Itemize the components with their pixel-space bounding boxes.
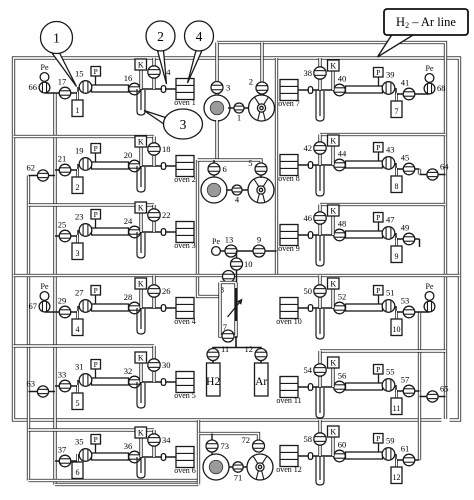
- svg-text:oven 10: oven 10: [276, 317, 302, 326]
- cold trap row2: [137, 166, 145, 192]
- svg-text:P: P: [376, 143, 380, 152]
- wire Ar cylinder stem: [260, 360, 262, 364]
- callout circle 2: [146, 21, 175, 51]
- wire middle header: [198, 160, 262, 164]
- wire valve 14 drop: [152, 58, 155, 89]
- cold trap row12: [316, 456, 324, 485]
- metering valve 59: [382, 448, 395, 461]
- svg-text:68: 68: [437, 83, 446, 93]
- valve 34: [148, 434, 160, 446]
- wire row4 main seg: [129, 307, 176, 309]
- svg-text:57: 57: [401, 375, 410, 385]
- svg-text:oven 7: oven 7: [278, 99, 300, 108]
- svg-text:oven 11: oven 11: [276, 396, 301, 405]
- wire manifold riser: [236, 251, 238, 284]
- sample tube 4: [72, 311, 83, 336]
- diffusion pump 1: [204, 95, 230, 121]
- valve 41: [403, 88, 415, 100]
- K gauge row3: [135, 202, 147, 213]
- svg-text:3: 3: [180, 117, 187, 132]
- wire manifold top line: [216, 250, 277, 252]
- Ar cylinder: [255, 363, 269, 396]
- wire valve5 stem: [260, 164, 262, 178]
- svg-text:15: 15: [75, 69, 84, 79]
- metering valve 55: [382, 379, 395, 392]
- valve 56: [334, 381, 346, 393]
- svg-text:P: P: [94, 360, 98, 369]
- K gauge row8: [328, 135, 340, 146]
- valve 65: [427, 391, 438, 402]
- wire row7 Pe stem: [429, 78, 431, 94]
- svg-text:53: 53: [401, 296, 410, 306]
- K gauge stub row2: [139, 147, 142, 166]
- wire valve 38 drop: [318, 58, 321, 90]
- wire valve 46 drop: [318, 205, 321, 236]
- valve 9: [253, 245, 265, 257]
- valve 42: [314, 142, 326, 154]
- svg-text:54: 54: [304, 365, 313, 375]
- valve 30: [148, 359, 160, 371]
- metering valve 31: [79, 374, 92, 387]
- fitting row6: [161, 454, 165, 461]
- svg-text:9: 9: [395, 252, 399, 261]
- svg-text:9: 9: [257, 235, 261, 245]
- valve 63: [37, 386, 48, 397]
- wire row6 main seg: [129, 456, 176, 458]
- valve 71: [233, 462, 243, 472]
- gauge P row3: [95, 219, 97, 228]
- wire row9 lower seg: [396, 233, 420, 239]
- sample tube 3: [72, 235, 83, 260]
- reactor tube row5: [92, 378, 129, 385]
- sample tube 9: [391, 238, 402, 263]
- svg-text:oven 12: oven 12: [276, 465, 302, 474]
- wire row1 Pe stem: [44, 77, 46, 93]
- valve 38: [314, 67, 326, 79]
- gauge P row11: [378, 374, 380, 383]
- wire valve 22 drop: [152, 205, 155, 232]
- svg-text:10: 10: [393, 325, 401, 334]
- svg-text:oven 2: oven 2: [174, 175, 196, 184]
- H2-Ar line pointer: [378, 35, 415, 58]
- svg-text:40: 40: [338, 74, 347, 84]
- wire diff-pump1 inlet riser: [215, 43, 218, 96]
- svg-text:24: 24: [124, 216, 133, 226]
- reactor tube row6: [92, 453, 129, 460]
- fitting row10: [308, 305, 312, 312]
- svg-text:3: 3: [76, 249, 80, 258]
- H2 cylinder: [207, 363, 221, 396]
- K gauge stub row7: [331, 71, 334, 90]
- svg-text:K: K: [330, 206, 336, 215]
- wire row6 lower seg: [55, 455, 78, 461]
- wire bus-B roughing line top: [217, 43, 446, 420]
- reactor tube row1: [92, 85, 129, 92]
- wire bottom header: [199, 434, 259, 453]
- wire row7 lower seg: [396, 88, 430, 94]
- wire diff-pump1 backing: [215, 120, 218, 160]
- K gauge stub row12: [331, 437, 334, 456]
- K gauge stub row3: [139, 213, 142, 232]
- oven 9: [278, 225, 300, 254]
- valve 57: [403, 385, 415, 397]
- svg-text:P: P: [94, 286, 98, 295]
- svg-text:Pe: Pe: [41, 282, 49, 291]
- svg-text:4: 4: [235, 195, 240, 205]
- svg-text:37: 37: [58, 445, 67, 455]
- reactor tube row7: [346, 86, 383, 93]
- svg-text:4: 4: [196, 29, 203, 44]
- reactor tube row10: [346, 304, 383, 311]
- svg-text:71: 71: [234, 473, 243, 483]
- valve 72: [253, 440, 265, 452]
- valve 1: [234, 103, 244, 113]
- valve 18: [148, 143, 160, 155]
- svg-text:Pe: Pe: [41, 63, 49, 72]
- cold trap row8: [316, 165, 324, 196]
- oven 7: [278, 80, 300, 109]
- K gauge row9: [328, 205, 340, 216]
- fitting row11: [308, 384, 312, 391]
- svg-text:10: 10: [244, 259, 253, 269]
- svg-text:K: K: [330, 358, 336, 367]
- K gauge row1: [135, 59, 147, 70]
- valve 66: [39, 82, 50, 93]
- oven 3: [174, 222, 196, 251]
- wire bottom-left bus y480: [29, 479, 199, 482]
- svg-text:25: 25: [58, 220, 67, 230]
- svg-text:21: 21: [58, 154, 67, 164]
- valve 73: [206, 440, 218, 452]
- oven 4: [174, 298, 196, 327]
- wire valve 30 drop: [152, 346, 155, 382]
- wire row2 main seg: [129, 165, 176, 167]
- callout circle 3: [164, 109, 203, 139]
- svg-text:12: 12: [393, 473, 401, 482]
- sample tube 2: [72, 169, 83, 194]
- wire loop to manifold: [213, 336, 261, 354]
- sample tube 10: [391, 311, 402, 336]
- svg-text:66: 66: [29, 82, 38, 92]
- wire row5 lower seg: [55, 380, 78, 386]
- svg-text:P: P: [94, 210, 98, 219]
- valve 48: [334, 229, 346, 241]
- svg-text:30: 30: [162, 360, 171, 370]
- svg-text:2: 2: [157, 29, 164, 44]
- svg-text:45: 45: [401, 153, 410, 163]
- svg-text:36: 36: [124, 441, 133, 451]
- svg-text:oven 8: oven 8: [278, 174, 300, 183]
- svg-text:61: 61: [401, 444, 410, 454]
- wire left center bus x197: [198, 160, 222, 297]
- pressure gauge Pe row10: [425, 282, 434, 300]
- valve 40: [334, 84, 346, 96]
- svg-text:65: 65: [440, 384, 449, 394]
- svg-text:13: 13: [225, 235, 234, 245]
- wire row5 frame: [14, 344, 155, 347]
- callout pointer 1: [52, 53, 77, 87]
- wire row10 lower seg: [396, 306, 430, 312]
- wire row4 lower seg: [45, 306, 79, 312]
- sample tube 6: [72, 454, 83, 479]
- svg-text:K: K: [138, 137, 144, 146]
- metering valve 35: [79, 449, 92, 462]
- wire row8 lower seg: [396, 163, 420, 169]
- wire row11 main seg: [298, 386, 345, 388]
- svg-text:oven 6: oven 6: [174, 466, 196, 475]
- svg-text:35: 35: [75, 437, 84, 447]
- wire row8 stub: [420, 174, 446, 176]
- svg-text:P: P: [376, 286, 380, 295]
- wire row9 end hook: [419, 239, 421, 247]
- svg-text:K: K: [330, 279, 336, 288]
- svg-text:19: 19: [75, 146, 84, 156]
- svg-text:2: 2: [76, 183, 80, 192]
- wire right bus x419 lower: [418, 312, 421, 460]
- metering valve 43: [382, 157, 395, 170]
- metering valve 47: [382, 227, 395, 240]
- wire valve6 stem: [213, 160, 215, 178]
- fitting row3: [161, 229, 165, 236]
- svg-text:7: 7: [395, 107, 399, 116]
- gauge P row8: [378, 152, 380, 161]
- wire pump3 link: [229, 466, 248, 468]
- oven 10: [276, 298, 302, 327]
- gauge P row6: [95, 444, 97, 453]
- svg-text:K: K: [138, 60, 144, 69]
- diffusion pump 3: [203, 454, 229, 480]
- wire row12 lower seg: [396, 454, 420, 460]
- valve 6: [208, 163, 220, 175]
- wire valve8 stem: [228, 276, 230, 285]
- fitting row2: [161, 163, 165, 170]
- K gauge row2: [135, 136, 147, 147]
- wire row3 frame: [29, 203, 155, 206]
- flow restrictor bar: [235, 288, 238, 321]
- valve 7: [222, 330, 234, 342]
- svg-text:50: 50: [304, 286, 313, 296]
- fitting row8: [308, 162, 312, 169]
- K gauge row5: [135, 352, 147, 363]
- wire bottom frame left: [197, 434, 200, 485]
- wire row10 main seg: [298, 307, 345, 309]
- gauge P row12: [378, 443, 380, 452]
- wire row9 main seg: [298, 234, 345, 236]
- svg-text:56: 56: [338, 371, 347, 381]
- valve 29: [59, 306, 71, 318]
- svg-text:31: 31: [75, 362, 84, 372]
- svg-text:P: P: [94, 144, 98, 153]
- svg-text:16: 16: [124, 73, 133, 83]
- K gauge stub row11: [331, 368, 334, 387]
- metering valve 23: [79, 224, 92, 237]
- wire bus-A main H2-Ar ring: [14, 58, 460, 420]
- svg-text:51: 51: [386, 288, 395, 298]
- sample tube 12: [391, 459, 402, 484]
- gauge P row5: [95, 369, 97, 378]
- oven 5: [174, 372, 196, 401]
- reactor tube row12: [346, 452, 383, 459]
- svg-text:43: 43: [386, 145, 395, 155]
- K gauge stub row1: [139, 70, 142, 89]
- fitting row9: [308, 232, 312, 239]
- svg-text:60: 60: [338, 440, 347, 450]
- svg-text:67: 67: [29, 301, 38, 311]
- wire crossing hop at bus-A bottom x445: [442, 417, 450, 424]
- oven 6: [174, 447, 196, 476]
- wire row4 Pe stem: [44, 296, 46, 312]
- cold trap row5: [137, 382, 145, 408]
- cold trap row1: [137, 89, 145, 115]
- oven 1: [174, 79, 196, 108]
- oven 2: [174, 156, 196, 185]
- svg-text:8: 8: [395, 182, 399, 191]
- valve 36: [129, 451, 141, 463]
- wire row6 frame: [29, 428, 155, 431]
- callout pointer 4: [188, 51, 203, 84]
- svg-text:26: 26: [162, 286, 171, 296]
- svg-text:22: 22: [162, 210, 171, 220]
- svg-text:27: 27: [75, 288, 84, 298]
- svg-text:34: 34: [162, 435, 171, 445]
- valve 24: [129, 226, 141, 238]
- svg-text:3: 3: [226, 83, 230, 93]
- callout circle 1: [41, 22, 73, 54]
- wire left bus x55: [53, 93, 56, 485]
- svg-text:33: 33: [58, 370, 67, 380]
- svg-text:44: 44: [338, 149, 347, 159]
- valve 22: [148, 209, 160, 221]
- metering valve 27: [79, 300, 92, 313]
- svg-text:1: 1: [237, 113, 241, 123]
- reactor tube row11: [346, 383, 383, 390]
- svg-text:Ar: Ar: [255, 376, 267, 388]
- sample tube 8: [391, 168, 402, 193]
- cold trap row11: [316, 387, 324, 418]
- valve 52: [334, 302, 346, 314]
- K gauge row6: [135, 427, 147, 438]
- valve 4: [232, 185, 242, 195]
- svg-text:17: 17: [58, 77, 67, 87]
- wire right center bus x276: [275, 58, 278, 276]
- K gauge row10: [328, 278, 340, 289]
- fitting row5: [161, 379, 165, 386]
- svg-text:64: 64: [440, 162, 449, 172]
- svg-text:K: K: [330, 61, 336, 70]
- sample tube 11: [391, 390, 402, 415]
- svg-text:P: P: [376, 213, 380, 222]
- svg-text:K: K: [138, 279, 144, 288]
- svg-text:Pe: Pe: [426, 282, 434, 291]
- valve 60: [334, 450, 346, 462]
- valve 33: [59, 380, 71, 392]
- svg-text:K: K: [138, 203, 144, 212]
- valve 21: [59, 164, 71, 176]
- gauge P row10: [378, 295, 380, 304]
- wire valve 54 drop: [318, 351, 321, 387]
- svg-text:K: K: [330, 136, 336, 145]
- svg-text:K: K: [138, 353, 144, 362]
- gauge P row4: [95, 295, 97, 304]
- valve row10 edge: [424, 301, 435, 312]
- wire row9 frame: [320, 203, 446, 206]
- svg-text:28: 28: [124, 292, 133, 302]
- wire row5 main seg: [129, 381, 176, 383]
- pressure gauge Pe row7: [425, 64, 434, 82]
- svg-text:62: 62: [27, 163, 36, 173]
- wire bottom pump feed: [197, 420, 200, 434]
- valve 32: [129, 376, 141, 388]
- svg-text:49: 49: [401, 223, 410, 233]
- svg-text:P: P: [376, 365, 380, 374]
- wire row11 stub: [420, 396, 446, 398]
- svg-text:42: 42: [304, 143, 313, 153]
- reactor tube row2: [92, 162, 129, 169]
- cold trap row9: [316, 235, 324, 266]
- callout circle 4: [185, 21, 214, 51]
- metering valve 15: [79, 81, 92, 94]
- valve 20: [129, 160, 141, 172]
- wire left bus x28: [27, 176, 30, 481]
- fitting row4: [161, 305, 165, 312]
- svg-text:2: 2: [249, 77, 253, 87]
- wire valve 34 drop: [152, 430, 155, 457]
- valve 10: [231, 258, 243, 270]
- wire bottom-left bus y484: [55, 483, 199, 486]
- pressure gauge Pe row4: [40, 282, 49, 300]
- valve 8: [223, 271, 235, 283]
- wire pump1 link: [228, 107, 250, 109]
- wire row2 stub: [29, 175, 56, 177]
- svg-text:12: 12: [245, 344, 254, 354]
- pressure gauge Pe manifold: [212, 237, 221, 255]
- reactor tube row9: [346, 231, 383, 238]
- sample tube 7: [391, 93, 402, 118]
- diffusion pump 2: [201, 177, 227, 203]
- valve 49: [403, 233, 415, 245]
- svg-text:41: 41: [401, 78, 410, 88]
- gauge P row9: [378, 222, 380, 231]
- wire valve73 stem: [211, 434, 213, 456]
- cold trap row7: [316, 90, 324, 121]
- sample tube 5: [72, 385, 83, 410]
- svg-text:48: 48: [338, 219, 347, 229]
- K gauge stub row5: [139, 363, 142, 382]
- valve 3: [211, 82, 223, 94]
- wire right bus x419 upper (row8 corner): [418, 169, 421, 175]
- sample tube 1: [72, 92, 83, 117]
- svg-text:1: 1: [76, 106, 80, 115]
- valve 44: [334, 159, 346, 171]
- wire row1 main seg: [129, 88, 176, 90]
- valve 68: [424, 83, 435, 94]
- svg-text:Pe: Pe: [426, 64, 434, 73]
- svg-text:6: 6: [223, 164, 227, 174]
- callout pointer 2: [158, 51, 167, 85]
- reactor tube row8: [346, 161, 383, 168]
- svg-text:K: K: [330, 427, 336, 436]
- svg-text:23: 23: [75, 212, 84, 222]
- svg-text:72: 72: [242, 435, 251, 445]
- svg-text:46: 46: [304, 213, 313, 223]
- oven 8: [278, 155, 300, 184]
- rotary pump 3: [247, 454, 273, 480]
- svg-text:39: 39: [386, 70, 395, 80]
- K gauge row4: [135, 278, 147, 289]
- reactor tube row4: [92, 304, 129, 311]
- valve 58: [314, 433, 326, 445]
- fitting row7: [308, 87, 312, 94]
